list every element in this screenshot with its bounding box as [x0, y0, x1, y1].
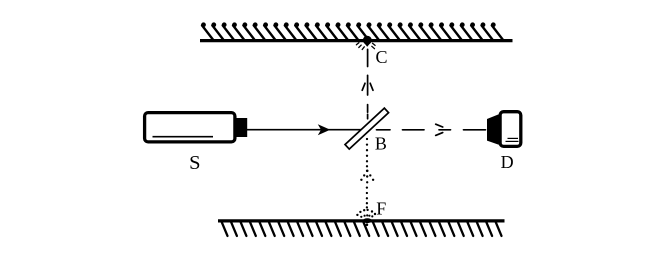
svg-text:B: B — [375, 133, 387, 153]
svg-text:C: C — [375, 47, 387, 67]
svg-text:D: D — [501, 152, 514, 172]
svg-text:S: S — [189, 152, 200, 174]
svg-text:F: F — [376, 198, 386, 218]
